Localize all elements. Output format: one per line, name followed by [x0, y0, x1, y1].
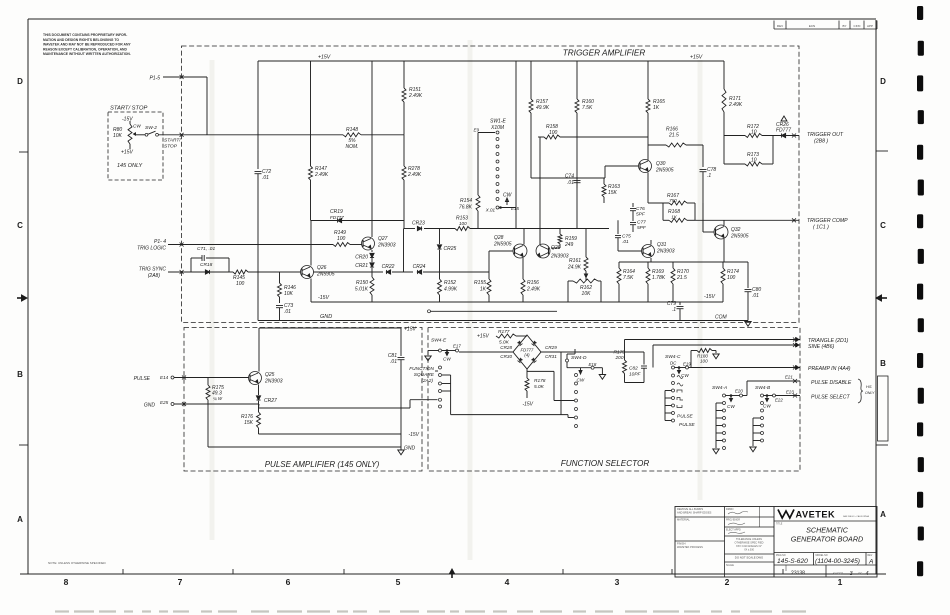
diode CR26	[776, 116, 791, 138]
wire R158 line	[538, 136, 544, 138]
svg-text:1K: 1K	[480, 287, 487, 293]
capacitor C76	[630, 203, 646, 218]
wire CR27 out	[259, 400, 438, 408]
svg-text:¼ W: ¼ W	[213, 396, 223, 401]
svg-text:E14: E14	[160, 375, 169, 380]
svg-text:START/: START/	[164, 138, 181, 144]
label P1-4 TRIG LOGIC	[137, 239, 166, 252]
svg-text:CR24: CR24	[413, 264, 426, 270]
svg-text:2.49K: 2.49K	[407, 172, 422, 178]
proprietary notice text	[43, 33, 131, 56]
svg-text:SINE (4B6): SINE (4B6)	[808, 344, 835, 350]
svg-text:2N5905: 2N5905	[655, 168, 674, 174]
svg-text:200: 200	[615, 355, 624, 361]
svg-text:E9: E9	[473, 128, 479, 133]
capacitor C78	[700, 167, 717, 232]
svg-text:ONLY: ONLY	[865, 391, 875, 395]
svg-text:2N5905: 2N5905	[493, 242, 512, 248]
capacitor C81	[388, 353, 405, 434]
svg-text:TRIGGER OUT: TRIGGER OUT	[807, 132, 844, 138]
resistor R278	[402, 135, 422, 229]
svg-text:-15V: -15V	[522, 402, 533, 408]
wire start-stop line 2	[361, 134, 404, 136]
resistor R149	[333, 230, 362, 247]
svg-text:XX ±.030: XX ±.030	[744, 548, 754, 551]
svg-text:CR18: CR18	[200, 262, 213, 268]
svg-text:R155: R155	[474, 280, 486, 286]
svg-text:.01: .01	[622, 239, 629, 245]
svg-text:+15V: +15V	[690, 55, 703, 61]
wire -15V rail	[311, 301, 723, 303]
transistor Q25	[249, 372, 283, 385]
bottom zone numbers	[64, 577, 843, 587]
svg-text:FUNCTION: FUNCTION	[409, 366, 434, 372]
wire preamp line	[691, 366, 800, 370]
capacitor C72	[255, 169, 272, 321]
svg-text:PROJ ENGR: PROJ ENGR	[726, 519, 740, 522]
label TRIG SYNC	[139, 267, 167, 280]
svg-text:2: 2	[725, 577, 730, 587]
svg-text:P1- 4: P1- 4	[154, 239, 166, 245]
svg-text:REASON EXCEPT CALIBRATION,: REASON EXCEPT CALIBRATION, OPERATION, AN…	[43, 47, 128, 51]
svg-text:C: C	[880, 221, 886, 230]
resistor R152	[438, 272, 458, 302]
svg-text:23138: 23138	[791, 571, 805, 577]
resistor R155	[474, 272, 491, 302]
wire -15V pulse	[259, 432, 420, 438]
svg-text:7: 7	[178, 577, 183, 587]
resistor R163	[602, 178, 620, 203]
svg-text:CR27: CR27	[264, 398, 277, 404]
transistor Q31	[618, 240, 675, 262]
resistor R159	[551, 229, 577, 249]
alignment arrow bottom	[449, 569, 455, 574]
svg-text:OTHERWISE SPEC FIED: OTHERWISE SPEC FIED	[735, 541, 764, 544]
wire P1-5 drop	[206, 77, 208, 135]
svg-text:R179: R179	[614, 350, 626, 356]
HS brace	[858, 379, 875, 403]
resistor R153	[455, 216, 609, 231]
svg-text:CR30: CR30	[500, 354, 512, 359]
svg-text:49.9K: 49.9K	[536, 105, 550, 111]
resistor R162	[568, 278, 601, 303]
svg-text:DWG NO: DWG NO	[776, 555, 786, 557]
svg-text:GND: GND	[404, 446, 416, 452]
svg-text:GND: GND	[320, 314, 332, 320]
svg-text:Q32: Q32	[731, 227, 741, 233]
svg-text:STOP: STOP	[164, 144, 178, 150]
svg-text:SCHEMATIC: SCHEMATIC	[806, 526, 849, 535]
svg-text:100: 100	[727, 275, 736, 281]
svg-text:10K: 10K	[582, 291, 592, 297]
svg-text:SCALE: SCALE	[726, 564, 734, 567]
pulse inner rect top	[259, 328, 401, 372]
svg-text:MATION AND DESIGN RIGHTS: MATION AND DESIGN RIGHTS BELONGING TO	[43, 38, 119, 42]
svg-text:100: 100	[337, 236, 346, 242]
svg-text:10: 10	[751, 158, 757, 164]
wire gnd input	[174, 402, 259, 408]
svg-text:PULSE DISABLE: PULSE DISABLE	[811, 380, 852, 386]
svg-text:CW: CW	[133, 124, 141, 129]
svg-text:CR22: CR22	[382, 264, 395, 270]
svg-text:7.5K: 7.5K	[582, 105, 593, 111]
wire gnd bottom rail	[208, 446, 401, 448]
svg-text:SW4-D: SW4-D	[571, 355, 587, 361]
svg-text:-15V: -15V	[318, 295, 329, 301]
wire sw4e links	[451, 352, 574, 418]
svg-text:7.5K: 7.5K	[623, 275, 634, 281]
svg-text:1K: 1K	[671, 215, 678, 220]
svg-text:E20: E20	[735, 389, 743, 394]
diode CR24	[413, 264, 440, 274]
svg-text:.01: .01	[752, 293, 759, 299]
svg-text:D: D	[17, 77, 23, 86]
svg-text:A: A	[17, 515, 23, 524]
svg-text:+15V: +15V	[121, 150, 133, 156]
svg-text:(2A2): (2A2)	[421, 378, 433, 384]
diode CR25	[437, 229, 456, 273]
resistor R180	[689, 349, 720, 368]
wire start-stop line	[159, 134, 344, 136]
svg-text:COM: COM	[715, 315, 728, 321]
transistor Q29	[536, 229, 569, 260]
svg-text:4: 4	[865, 571, 868, 577]
junction X start line	[180, 133, 184, 137]
svg-text:PULSE SELECT: PULSE SELECT	[811, 395, 850, 401]
scan artifact streak bottom	[55, 610, 806, 612]
svg-text:76.8K: 76.8K	[459, 205, 473, 211]
svg-text:B: B	[17, 370, 23, 379]
svg-text:2.49K: 2.49K	[728, 102, 743, 108]
pulse amplifier dashed box	[184, 328, 422, 472]
svg-text:100: 100	[459, 221, 467, 226]
svg-text:REV: REV	[868, 555, 873, 557]
diode CR22	[382, 264, 413, 274]
svg-text:-15V: -15V	[704, 294, 715, 300]
svg-text:2.49K: 2.49K	[314, 172, 329, 178]
svg-text:DC: DC	[670, 361, 677, 366]
resistor R147	[309, 166, 329, 221]
resistor R175	[206, 378, 224, 448]
svg-text:GENERATOR BOARD: GENERATOR BOARD	[791, 535, 863, 544]
svg-text:.1: .1	[672, 307, 676, 313]
svg-text:100: 100	[700, 359, 708, 364]
switch SW4-B	[750, 385, 784, 452]
svg-text:C: C	[17, 221, 23, 230]
resistor R174	[721, 262, 739, 302]
svg-text:SW4-B: SW4-B	[755, 385, 771, 391]
svg-text:24.9K: 24.9K	[567, 265, 582, 271]
wire bridge right	[541, 351, 644, 353]
wire trig sync line	[168, 270, 191, 274]
svg-text:MODEL NO: MODEL NO	[816, 555, 828, 557]
svg-text:X.01: X.01	[485, 208, 496, 213]
switch SW4-A	[712, 385, 743, 454]
svg-text:(4): (4)	[524, 353, 530, 358]
transistor Q32	[703, 203, 749, 262]
svg-text:-15V: -15V	[408, 432, 419, 438]
binding dash marks	[917, 6, 924, 576]
switch SW4-C	[665, 354, 691, 392]
label FUNCTION SQUARE	[409, 366, 438, 384]
wire emitter rail Q32	[619, 261, 748, 263]
resistor R161	[567, 229, 588, 278]
svg-text:15K: 15K	[608, 190, 618, 196]
svg-text:.01: .01	[284, 309, 291, 315]
transistor Q30	[639, 160, 674, 174]
wire Q27 collector branch	[371, 61, 373, 237]
svg-text:SW-2: SW-2	[145, 125, 157, 131]
svg-text:R178: R178	[534, 378, 546, 384]
svg-text:CW: CW	[681, 373, 689, 378]
resistor R166	[648, 127, 703, 148]
svg-text:BY: BY	[842, 24, 846, 28]
capacitor C82	[625, 352, 648, 383]
switch SW1-E	[473, 119, 519, 213]
resistor R179	[614, 350, 627, 383]
svg-text:249: 249	[564, 242, 574, 248]
svg-text:1K: 1K	[653, 105, 660, 111]
alignment arrow right	[876, 295, 882, 301]
svg-text:5PF: 5PF	[637, 225, 647, 231]
diode CR27	[256, 385, 277, 413]
svg-text:CK'D: CK'D	[854, 24, 862, 28]
svg-text:Q27: Q27	[378, 236, 388, 242]
svg-text:( 1C1 ): ( 1C1 )	[813, 225, 829, 231]
capacitor C77	[630, 211, 647, 232]
svg-text:E25: E25	[160, 400, 169, 405]
label TRIANGLE SINE	[808, 338, 849, 350]
capacitor C73	[276, 303, 293, 321]
svg-text:START/ STOP: START/ STOP	[110, 106, 147, 112]
svg-text:CW: CW	[503, 193, 513, 199]
resistor R160	[575, 61, 594, 229]
resistor R176	[241, 412, 260, 434]
resistor R167	[648, 193, 695, 205]
svg-text:CW: CW	[763, 404, 771, 409]
svg-text:SHEET: SHEET	[833, 572, 843, 576]
svg-text:ELECT APPD: ELECT APPD	[726, 529, 741, 532]
svg-text:AND BREAK SHARP EDGES: AND BREAK SHARP EDGES	[677, 511, 712, 515]
wire triangle line	[625, 338, 801, 353]
svg-text:E17: E17	[453, 344, 461, 349]
svg-text:750: 750	[669, 198, 677, 203]
switch SW4-E	[425, 338, 462, 409]
svg-text:R156: R156	[527, 280, 539, 286]
svg-text:WAVETEK AND MAY NOT BE REPROD: WAVETEK AND MAY NOT BE REPRODUCED FOR AN…	[43, 43, 131, 47]
svg-text:GND: GND	[144, 403, 156, 409]
svg-text:R152: R152	[444, 280, 456, 286]
svg-text:100: 100	[549, 130, 558, 136]
svg-text:145 ONLY: 145 ONLY	[117, 163, 143, 169]
ground pulse amp	[398, 450, 404, 455]
svg-text:MAINTENANCE WITHOUT WRITTEN: MAINTENANCE WITHOUT WRITTEN AUTHORIZATIO…	[43, 52, 131, 56]
svg-text:NOTE: UNLESS OTHERWISE SPECIF: NOTE: UNLESS OTHERWISE SPECIFIED	[48, 561, 106, 565]
resistor R157	[529, 61, 550, 178]
label PULSE input	[134, 375, 174, 382]
svg-text:OF: OF	[858, 572, 862, 576]
wire C72 branch	[257, 61, 259, 169]
revision table	[774, 21, 877, 30]
svg-text:2N3903: 2N3903	[656, 249, 675, 255]
ground COM	[745, 322, 751, 327]
svg-text:Q30: Q30	[656, 161, 666, 167]
svg-text:CR21: CR21	[355, 263, 368, 269]
svg-text:DO NOT SCALE DWG: DO NOT SCALE DWG	[735, 556, 763, 560]
wire GND rail	[258, 320, 748, 322]
zone tick marks	[19, 151, 888, 574]
resistor R169	[646, 262, 666, 302]
resistor R146	[278, 272, 297, 303]
wire +15V rail	[258, 60, 724, 62]
capacitor C71 diode CR18 pair	[191, 246, 229, 274]
svg-text:Q28: Q28	[494, 235, 504, 241]
svg-text:HS: HS	[866, 384, 872, 389]
label TRIGGER COMP	[807, 218, 848, 231]
diode bridge CR28 CR29 CR30 CR31	[500, 335, 557, 369]
svg-text:TRIGGER AMPLIFIER: TRIGGER AMPLIFIER	[563, 49, 646, 58]
svg-text:WAVETEK PROCESS: WAVETEK PROCESS	[677, 545, 703, 549]
svg-text:SQUARE: SQUARE	[414, 372, 435, 378]
diode CR20	[355, 250, 374, 261]
capacitor C80	[745, 262, 762, 321]
svg-text:FD777: FD777	[330, 215, 344, 220]
wire pulse select	[776, 390, 801, 398]
svg-text:APP: APP	[867, 24, 873, 28]
svg-text:.01: .01	[262, 175, 269, 181]
waveform contacts column	[665, 391, 675, 423]
switch SW4-D	[566, 349, 606, 428]
svg-text:10K: 10K	[113, 133, 123, 139]
svg-text:CR25: CR25	[444, 246, 457, 252]
svg-text:1: 1	[838, 577, 843, 587]
capacitor C75	[615, 220, 631, 251]
svg-text:+15V: +15V	[318, 55, 331, 61]
resistor R156	[521, 258, 541, 302]
svg-text:.01: .01	[390, 359, 397, 365]
title block	[675, 507, 877, 578]
svg-text:CR29: CR29	[545, 345, 557, 350]
svg-text:C74: C74	[565, 174, 574, 180]
svg-text:REV: REV	[777, 24, 783, 28]
svg-text:21.5: 21.5	[676, 275, 687, 281]
wire bridge bottom link	[527, 371, 574, 400]
resistor R148	[343, 127, 361, 150]
svg-text:(2B8 ): (2B8 )	[814, 139, 828, 145]
svg-text:CW: CW	[727, 404, 735, 409]
label GND input	[144, 400, 174, 409]
wire P1-4 line	[168, 243, 333, 247]
switch SW-2	[136, 125, 158, 136]
svg-text:R161: R161	[569, 258, 581, 264]
svg-text:R148: R148	[346, 127, 358, 133]
svg-text:CR28: CR28	[500, 345, 512, 350]
svg-text:4.99K: 4.99K	[444, 287, 458, 293]
wire mid stub	[428, 310, 558, 313]
title block small labels	[677, 507, 873, 567]
svg-text:PREAMP IN (4A4): PREAMP IN (4A4)	[808, 366, 851, 372]
resistor R168	[663, 203, 695, 222]
resistor R150	[355, 277, 374, 302]
svg-text:Q31: Q31	[657, 242, 667, 248]
right edge tab rectangle	[878, 376, 889, 441]
svg-text:5.01K: 5.01K	[355, 287, 369, 293]
label TRIGGER OUT	[807, 132, 844, 145]
svg-text:C71, .01: C71, .01	[197, 246, 215, 252]
wire R278 junction drop	[403, 229, 405, 273]
drawing numbers	[777, 558, 874, 577]
svg-text:SW4-A: SW4-A	[712, 385, 727, 391]
svg-text:DRWN: DRWN	[726, 508, 734, 511]
svg-text:3: 3	[615, 577, 620, 587]
svg-text:X10M: X10M	[490, 125, 505, 131]
wire CR23 line	[404, 228, 415, 230]
diode CR23	[412, 221, 455, 231]
svg-text:TITLE: TITLE	[776, 524, 783, 526]
Wavetek logo	[776, 510, 870, 526]
resistor R151	[402, 61, 423, 135]
title text	[791, 526, 863, 544]
svg-text:THIS DOCUMENT CONTAINS PROP: THIS DOCUMENT CONTAINS PROPRIETARY INFOR…	[43, 33, 127, 37]
svg-text:1.78K: 1.78K	[652, 275, 666, 281]
svg-text:CW: CW	[443, 357, 451, 362]
svg-text:SW4-C: SW4-C	[665, 354, 681, 360]
resistor R154	[459, 195, 480, 229]
resistor R177	[496, 329, 527, 346]
svg-text:D: D	[880, 77, 886, 86]
resistor R145	[229, 270, 301, 287]
capacitor C74	[565, 174, 581, 189]
svg-text:6: 6	[286, 577, 291, 587]
svg-text:PULSE: PULSE	[134, 376, 151, 382]
transistor Q26	[301, 221, 335, 279]
svg-text:SAN DIEGO • CALIFORNIA: SAN DIEGO • CALIFORNIA	[843, 515, 870, 518]
svg-text:.1: .1	[707, 173, 711, 179]
svg-text:10PF: 10PF	[629, 372, 642, 378]
svg-text:5PF: 5PF	[636, 212, 646, 218]
wire R147 branch	[310, 61, 312, 166]
wire bridge left	[459, 351, 513, 353]
wire sine line	[653, 343, 800, 368]
junction X trigger out	[792, 134, 796, 138]
svg-text:10: 10	[751, 130, 757, 136]
svg-text:FD777: FD777	[776, 128, 791, 134]
resistor R158	[540, 124, 648, 245]
transistor Q27	[362, 236, 396, 250]
resistor R164	[617, 262, 635, 302]
svg-text:A: A	[868, 559, 874, 566]
trigger amplifier dashed box	[182, 46, 800, 323]
function selector dashed box	[428, 328, 800, 472]
wire SW1 feed	[515, 61, 517, 229]
resistor R171	[722, 61, 743, 164]
waveform symbols	[677, 376, 683, 408]
zone letters left	[17, 77, 23, 524]
svg-text:AVETEK: AVETEK	[796, 510, 836, 520]
svg-text:CR23: CR23	[412, 221, 425, 227]
svg-text:C82: C82	[629, 366, 638, 372]
wire pulse input	[174, 376, 249, 380]
diode CR19	[311, 209, 404, 223]
svg-text:SW4-E: SW4-E	[431, 338, 447, 344]
wire R155 top	[440, 271, 490, 273]
svg-text:Q26: Q26	[317, 265, 327, 271]
svg-text:100: 100	[236, 281, 245, 287]
svg-text:-15V: -15V	[122, 117, 133, 123]
start-stop dashed box	[108, 112, 163, 180]
resistor R173	[724, 136, 773, 167]
svg-text:E21: E21	[785, 375, 793, 380]
